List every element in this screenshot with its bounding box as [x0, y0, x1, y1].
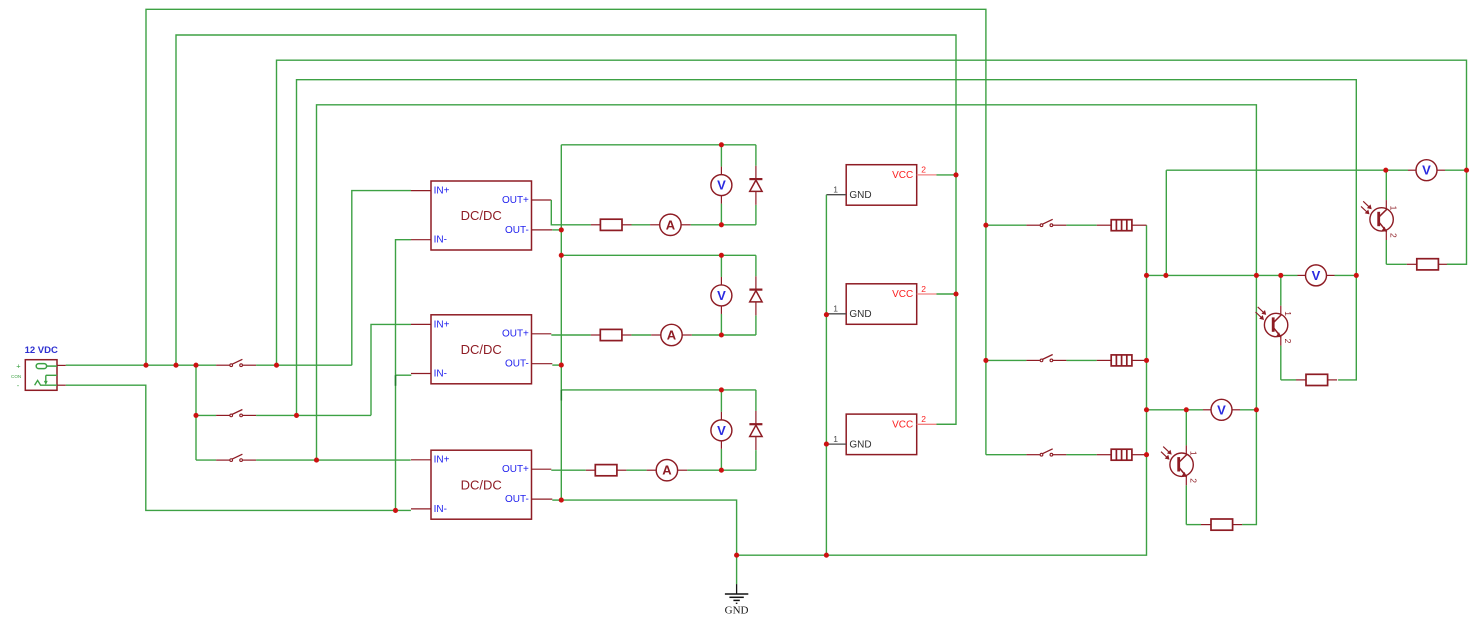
svg-text:V: V: [717, 288, 726, 303]
svg-text:1: 1: [833, 304, 838, 314]
svg-text:A: A: [666, 217, 676, 232]
svg-text:IN-: IN-: [434, 368, 447, 379]
svg-text:OUT+: OUT+: [502, 329, 529, 340]
svg-text:2: 2: [921, 284, 926, 294]
svg-text:1: 1: [1389, 206, 1399, 211]
svg-text:1: 1: [833, 434, 838, 444]
svg-text:VCC: VCC: [892, 170, 913, 181]
svg-text:GND: GND: [725, 605, 749, 617]
svg-text:GND: GND: [849, 190, 871, 201]
svg-text:GND: GND: [849, 309, 871, 320]
svg-text:+: +: [16, 361, 21, 370]
svg-text:2: 2: [921, 165, 926, 175]
svg-text:V: V: [717, 423, 726, 438]
svg-text:OUT-: OUT-: [505, 359, 529, 370]
svg-text:CON: CON: [11, 374, 21, 379]
svg-text:OUT-: OUT-: [505, 494, 529, 505]
svg-text:IN+: IN+: [434, 455, 450, 466]
svg-text:12 VDC: 12 VDC: [25, 345, 58, 356]
svg-text:1: 1: [1189, 451, 1199, 456]
svg-text:A: A: [667, 328, 677, 343]
svg-text:2: 2: [921, 414, 926, 424]
svg-text:2: 2: [1283, 339, 1293, 344]
svg-text:V: V: [717, 178, 726, 193]
svg-text:1: 1: [1283, 311, 1293, 316]
svg-text:2: 2: [1189, 478, 1199, 483]
svg-text:A: A: [662, 463, 672, 478]
svg-text:DC/DC: DC/DC: [461, 477, 502, 492]
svg-text:V: V: [1312, 268, 1321, 283]
svg-text:IN-: IN-: [434, 504, 447, 515]
svg-text:GND: GND: [849, 439, 871, 450]
svg-text:IN+: IN+: [434, 319, 450, 330]
svg-text:2: 2: [1389, 233, 1399, 238]
svg-text:OUT+: OUT+: [502, 464, 529, 475]
svg-text:V: V: [1422, 163, 1431, 178]
svg-text:V: V: [1217, 402, 1226, 417]
svg-text:1: 1: [833, 185, 838, 195]
svg-text:VCC: VCC: [892, 420, 913, 431]
svg-text:OUT-: OUT-: [505, 225, 529, 236]
svg-text:DC/DC: DC/DC: [461, 342, 502, 357]
svg-text:VCC: VCC: [892, 289, 913, 300]
svg-text:IN+: IN+: [434, 186, 450, 197]
svg-text:DC/DC: DC/DC: [461, 208, 502, 223]
svg-text:OUT+: OUT+: [502, 195, 529, 206]
svg-text:IN-: IN-: [434, 235, 447, 246]
